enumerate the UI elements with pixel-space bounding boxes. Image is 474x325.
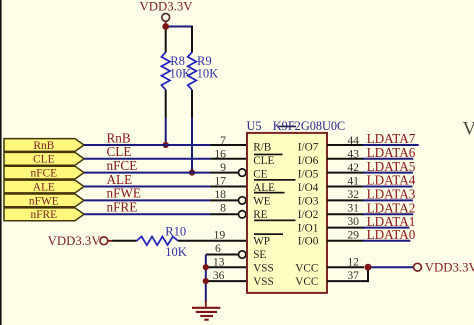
strike mark on part number (279, 125, 297, 127)
R8 top lead (165, 27, 167, 53)
power port stem bottom left (108, 240, 113, 242)
svg-text:32: 32 (347, 188, 359, 201)
svg-text:LDATA4: LDATA4 (367, 173, 416, 188)
svg-text:42: 42 (347, 161, 359, 174)
wire VCC to power port (368, 266, 414, 268)
pin 36 VSS (206, 269, 247, 282)
svg-text:10K: 10K (170, 67, 192, 81)
junction dot VSS36 (203, 278, 209, 284)
svg-text:LDATA3: LDATA3 (367, 187, 416, 202)
svg-text:V: V (463, 119, 474, 140)
resistor R8 (161, 52, 191, 148)
pin names left column (253, 142, 275, 288)
wire LDATA1 (363, 227, 409, 229)
svg-text:ALE: ALE (33, 181, 55, 193)
svg-text:nFRE: nFRE (107, 200, 138, 215)
pin 9 (211, 161, 246, 176)
svg-text:18: 18 (214, 188, 226, 201)
chip body U5 (247, 133, 327, 293)
svg-text:LDATA6: LDATA6 (367, 145, 416, 160)
svg-text:CLE: CLE (107, 144, 132, 159)
svg-text:8: 8 (220, 202, 226, 215)
svg-text:43: 43 (347, 148, 359, 161)
wire pin37 to vertical (363, 280, 369, 282)
svg-text:6: 6 (215, 242, 221, 255)
svg-text:I/O6: I/O6 (298, 155, 319, 167)
svg-text:RE: RE (253, 209, 267, 221)
svg-text:VCC: VCC (295, 263, 318, 275)
wire LDATA2 (363, 213, 413, 215)
pin 31 I/O2 (327, 201, 415, 216)
svg-text:31: 31 (347, 202, 359, 215)
pin 41 I/O4 (327, 173, 416, 188)
wire LDATA6 (363, 158, 413, 160)
pin 37 VCC (327, 269, 364, 282)
svg-text:CE: CE (253, 169, 267, 181)
wire SE/VSS to ground (205, 255, 207, 303)
svg-text:17: 17 (214, 175, 226, 188)
pin 29 I/O0 (327, 227, 416, 242)
pin 7 (211, 134, 248, 147)
svg-text:ALE: ALE (107, 172, 133, 187)
svg-text:30: 30 (347, 215, 359, 228)
R9 top lead (191, 26, 193, 53)
port nFCE (4, 166, 84, 179)
power port circle top (162, 14, 170, 22)
svg-text:nFRE: nFRE (31, 209, 58, 221)
svg-text:7: 7 (220, 134, 226, 147)
svg-text:CLE: CLE (33, 154, 55, 166)
power port stem (165, 21, 167, 26)
resistor R9 (188, 52, 219, 176)
svg-text:VCC: VCC (295, 276, 318, 288)
svg-text:37: 37 (347, 269, 359, 282)
svg-text:16: 16 (214, 148, 226, 161)
pin 44 I/O7 (327, 131, 419, 147)
port CLE (4, 152, 84, 165)
junction dot VSS13 (203, 264, 209, 270)
pin 32 I/O3 (327, 187, 416, 202)
pin 12 VCC (327, 256, 364, 269)
svg-text:29: 29 (347, 229, 359, 242)
wire LDATA5 (363, 172, 413, 174)
svg-text:I/O7: I/O7 (298, 142, 319, 154)
pin 8 (211, 202, 246, 219)
svg-text:LDATA0: LDATA0 (367, 227, 416, 242)
svg-text:RnB: RnB (107, 130, 131, 145)
svg-text:LDATA7: LDATA7 (367, 131, 416, 146)
port ALE (4, 180, 84, 193)
svg-text:19: 19 (214, 229, 226, 242)
wire LDATA0 (363, 240, 410, 242)
svg-text:I/O0: I/O0 (298, 236, 319, 248)
resistor R10 (137, 224, 247, 259)
power port circle right (414, 263, 422, 271)
svg-text:44: 44 (347, 134, 359, 147)
svg-text:WP: WP (253, 236, 270, 248)
svg-text:R/B: R/B (253, 142, 271, 154)
svg-text:12: 12 (347, 256, 359, 269)
svg-text:I/O3: I/O3 (298, 195, 319, 207)
pin 43 I/O6 (327, 145, 416, 161)
overbar RE (254, 220, 296, 222)
svg-text:I/O5: I/O5 (298, 169, 319, 181)
pin 42 I/O5 (327, 159, 416, 174)
R10 left lead (113, 240, 137, 242)
wire nFRE (84, 213, 211, 215)
svg-text:nFCE: nFCE (31, 168, 58, 180)
overbar WP (254, 233, 283, 235)
svg-text:VSS: VSS (253, 276, 274, 288)
svg-text:R10: R10 (165, 224, 186, 238)
svg-text:I/O2: I/O2 (298, 209, 319, 221)
wire ALE (84, 186, 211, 188)
overbar ALE (254, 192, 285, 194)
svg-text:U5: U5 (247, 119, 262, 133)
svg-text:13: 13 (213, 256, 225, 269)
power port circle bottom left (100, 237, 108, 245)
svg-text:41: 41 (347, 175, 359, 188)
wire LDATA4 (363, 186, 413, 188)
svg-text:VSS: VSS (253, 263, 274, 275)
wire LDATA3 (363, 199, 413, 201)
svg-text:WE: WE (253, 195, 271, 207)
wire VCC vertical (367, 267, 369, 282)
wire nFWE (84, 199, 211, 201)
wire nFCE (84, 172, 211, 174)
pin 6 SE (inverted) (206, 242, 246, 258)
overbar CE (254, 179, 296, 181)
svg-text:CLE: CLE (253, 155, 274, 167)
svg-text:10K: 10K (197, 67, 219, 81)
svg-text:36: 36 (213, 269, 225, 282)
svg-text:nFWE: nFWE (29, 195, 59, 207)
pin 16 (211, 148, 248, 161)
overbar R/B (254, 154, 283, 156)
wire to R9 (165, 26, 193, 28)
wire CLE (84, 158, 211, 160)
pin 30 I/O1 (327, 214, 415, 229)
junction dot VCC (365, 264, 372, 271)
svg-text:nFWE: nFWE (107, 186, 141, 201)
svg-text:SE: SE (253, 249, 266, 261)
svg-text:I/O1: I/O1 (298, 222, 319, 234)
pin 13 VSS (206, 256, 247, 269)
svg-text:RnB: RnB (33, 140, 54, 152)
port nFWE (4, 194, 84, 207)
junction dot top (162, 23, 169, 30)
wire LDATA7 (363, 144, 419, 146)
wire RnB (84, 144, 211, 146)
ground (192, 301, 220, 320)
svg-text:9: 9 (220, 161, 226, 174)
svg-text:10K: 10K (165, 245, 187, 259)
svg-text:VDD3.3V: VDD3.3V (48, 234, 102, 248)
pin 17 (211, 175, 248, 188)
svg-text:VDD3.3V: VDD3.3V (425, 261, 474, 275)
svg-text:LDATA5: LDATA5 (367, 159, 416, 174)
pin names right column (295, 142, 318, 288)
svg-text:nFCE: nFCE (107, 158, 138, 173)
port RnB (4, 139, 84, 152)
port nFRE (4, 208, 84, 221)
svg-text:I/O4: I/O4 (298, 182, 319, 194)
svg-text:VDD3.3V: VDD3.3V (140, 0, 194, 13)
pin 18 (211, 188, 246, 204)
sheet border left (0, 0, 2, 325)
